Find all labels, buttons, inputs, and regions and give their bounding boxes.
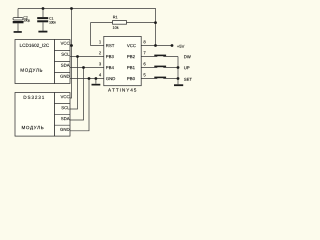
capacitor C2 <box>13 16 30 23</box>
wire GND net <box>70 79 104 131</box>
pin 6 <box>144 62 146 65</box>
pin 3 <box>99 62 101 65</box>
pin 8 <box>144 40 146 43</box>
ground (IC pin 4) <box>92 84 101 86</box>
wire SCL net <box>70 57 104 110</box>
node SET/rail <box>177 77 180 80</box>
pin VCC (DS3231) <box>61 95 70 98</box>
node DW <box>184 55 191 58</box>
IC U1 ATTINY45 <box>99 36 146 91</box>
wire top VCC rail <box>18 9 156 46</box>
switch UP <box>154 66 166 68</box>
pin SCL (LCD) <box>61 53 69 56</box>
module LCD1602_I2C <box>15 40 70 84</box>
wire PB0 pin 5 to SET switch <box>141 78 178 80</box>
node +5V flag <box>171 44 174 47</box>
node pin8/rail <box>154 44 157 47</box>
node LCD SDA <box>82 66 85 69</box>
node R1 right <box>154 21 157 24</box>
node GND row / DS3231 <box>88 77 91 80</box>
node LCD VCC <box>70 44 73 47</box>
pin 1 <box>99 40 101 43</box>
ground (switch rail) <box>174 84 183 86</box>
node LCD SCL <box>76 55 79 58</box>
wire VCC pin 8 to +5V <box>141 45 172 47</box>
wire switch common rail <box>177 57 179 85</box>
pin GND (DS3231) <box>60 128 69 131</box>
pin 7 <box>144 51 146 54</box>
pin VCC (LCD) <box>61 42 70 45</box>
resistor R1 <box>113 16 127 29</box>
pin 4 <box>99 73 101 76</box>
ground (C2) <box>14 31 22 33</box>
ground (C1) <box>38 31 47 33</box>
switch DW <box>154 55 166 57</box>
pin SDA (DS3231) <box>61 117 70 120</box>
node UP/rail <box>177 66 180 69</box>
wire R1 left lead to RST pin 1 <box>91 23 113 46</box>
pin 5 <box>144 73 146 76</box>
node UP <box>184 66 189 69</box>
wire PB2 pin 7 to DW switch <box>141 56 178 58</box>
switch SET <box>154 77 166 79</box>
pin SDA (LCD) <box>61 64 70 67</box>
node GND row / ground <box>95 77 98 80</box>
pin SCL (DS3231) <box>61 106 69 109</box>
node C1/rail <box>42 7 45 10</box>
node SET <box>184 78 192 81</box>
wire R1 right lead <box>127 22 156 24</box>
node VCC vert/rail <box>70 7 73 10</box>
node +5V <box>177 45 184 48</box>
capacitor C1 <box>37 17 56 23</box>
wire C1 stems <box>42 9 44 31</box>
pin GND (LCD) <box>60 75 69 78</box>
wire C2 stems <box>17 9 19 32</box>
wire VCC vertical to modules <box>70 9 72 99</box>
wire SDA net <box>70 68 104 121</box>
module DS3231 <box>15 93 70 137</box>
pin 2 <box>99 51 101 54</box>
wire PB1 pin 6 to UP switch <box>141 67 178 69</box>
